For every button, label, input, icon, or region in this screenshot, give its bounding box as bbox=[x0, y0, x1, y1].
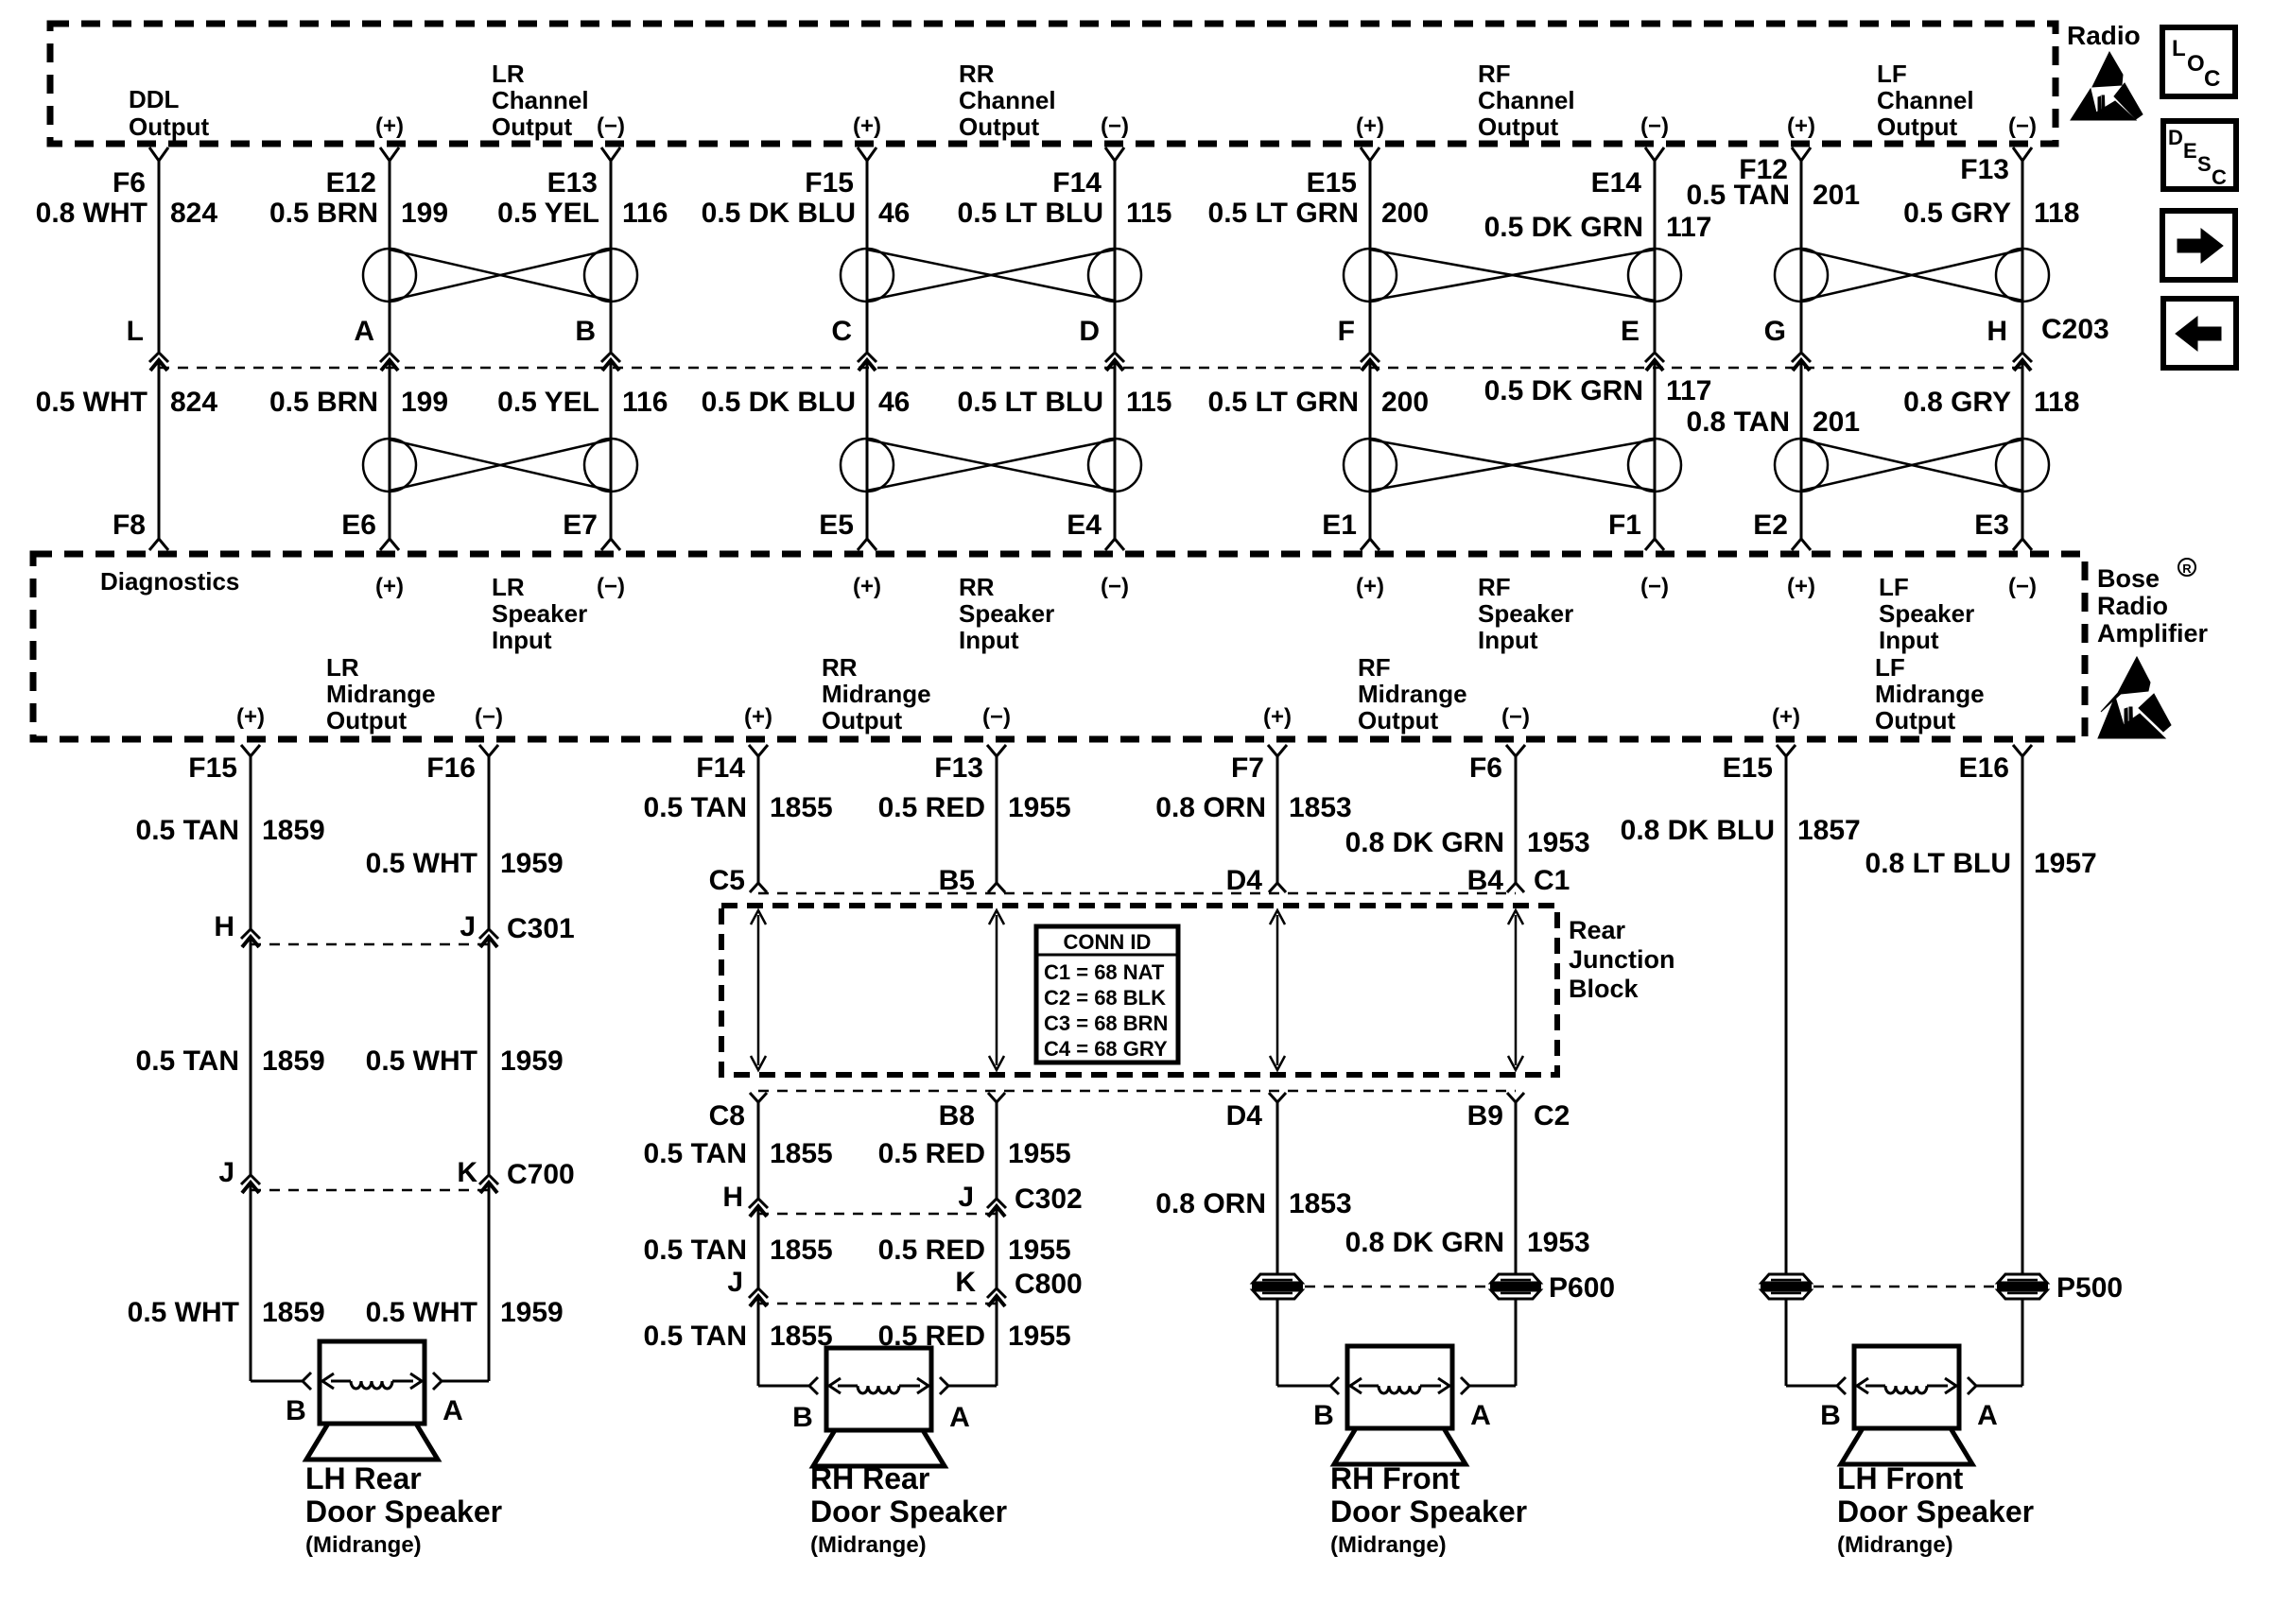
svg-text:Channel: Channel bbox=[959, 86, 1056, 114]
wire E14 to C203 (0.5 DK GRN 117) bbox=[1654, 161, 1657, 352]
svg-text:0.8 DK GRN: 0.8 DK GRN bbox=[1345, 1227, 1504, 1258]
svg-text:0.8 GRY: 0.8 GRY bbox=[1903, 387, 2011, 418]
svg-text:0.8 DK BLU: 0.8 DK BLU bbox=[1621, 815, 1775, 846]
svg-text:E15: E15 bbox=[1723, 752, 1773, 784]
svg-text:201: 201 bbox=[1813, 180, 1860, 211]
svg-text:(+): (+) bbox=[744, 704, 772, 730]
svg-text:A: A bbox=[949, 1402, 970, 1433]
svg-text:Speaker: Speaker bbox=[959, 599, 1054, 628]
svg-text:Input: Input bbox=[1478, 626, 1538, 654]
radio pin fork F12 bbox=[1792, 147, 1811, 161]
amp output pin fork F16 bbox=[479, 745, 498, 756]
svg-text:115: 115 bbox=[1126, 387, 1171, 418]
svg-text:F1: F1 bbox=[1608, 510, 1641, 541]
svg-text:C1 = 68 NAT: C1 = 68 NAT bbox=[1044, 960, 1165, 984]
in-line connector symbol C203 wire C bbox=[858, 353, 876, 362]
in-line connector symbol C203 wire D bbox=[1105, 353, 1124, 362]
svg-text:46: 46 bbox=[878, 387, 910, 418]
wire to speaker pin B bbox=[1277, 1385, 1330, 1388]
svg-text:Input: Input bbox=[1879, 626, 1939, 654]
svg-text:C8: C8 bbox=[709, 1100, 745, 1132]
speaker voice coil bbox=[331, 1380, 351, 1383]
svg-text:C: C bbox=[2212, 165, 2227, 189]
svg-text:Junction: Junction bbox=[1569, 945, 1675, 974]
svg-text:D: D bbox=[2168, 126, 2183, 149]
svg-text:(+): (+) bbox=[375, 574, 404, 599]
svg-text:Door Speaker: Door Speaker bbox=[810, 1494, 1007, 1529]
speaker body bbox=[320, 1341, 425, 1424]
svg-text:(−): (−) bbox=[2008, 574, 2037, 599]
svg-text:1855: 1855 bbox=[770, 1321, 833, 1352]
svg-text:J: J bbox=[218, 1157, 234, 1188]
svg-text:E7: E7 bbox=[563, 510, 598, 541]
amp output pin fork F13 bbox=[987, 745, 1006, 756]
svg-text:1859: 1859 bbox=[262, 1297, 325, 1328]
wire F13 to C203 (0.5 GRY 118) bbox=[2021, 161, 2024, 352]
svg-text:LR: LR bbox=[326, 653, 359, 682]
wire to speaker pin A bbox=[1469, 1385, 1516, 1388]
svg-text:L: L bbox=[127, 316, 144, 347]
svg-text:200: 200 bbox=[1381, 387, 1429, 418]
wire 0.8 DK GRN (P600 to speaker) bbox=[1515, 1298, 1518, 1386]
grommet P600 right bbox=[1491, 1274, 1540, 1283]
svg-text:Output: Output bbox=[1358, 706, 1439, 734]
svg-text:(−): (−) bbox=[1640, 113, 1669, 139]
radio pin fork E12 bbox=[380, 147, 399, 161]
junction top fork B5 bbox=[988, 883, 1005, 892]
in-line connector symbol C302 wire J bbox=[987, 1199, 1006, 1208]
svg-text:(Midrange): (Midrange) bbox=[810, 1532, 927, 1558]
svg-text:(−): (−) bbox=[1640, 574, 1669, 599]
amp pin fork E2 bbox=[1792, 539, 1811, 550]
svg-text:LF: LF bbox=[1877, 60, 1907, 88]
svg-text:0.8 LT BLU: 0.8 LT BLU bbox=[1865, 848, 2011, 879]
amp pin fork F8 bbox=[149, 539, 168, 550]
svg-text:Radio: Radio bbox=[2097, 592, 2168, 620]
C800 connector dashed line bbox=[758, 1303, 997, 1305]
svg-text:824: 824 bbox=[170, 198, 217, 229]
registered trademark symbol bbox=[2178, 559, 2195, 576]
svg-text:LF: LF bbox=[1875, 653, 1905, 682]
wire 0.5 TAN 1855 (C302 to C800) bbox=[757, 1206, 760, 1288]
speaker cone bbox=[1841, 1428, 1972, 1464]
twisted pair LR channel (lower) bbox=[363, 439, 416, 492]
svg-text:1959: 1959 bbox=[500, 848, 564, 879]
wire F12 to C203 (0.5 TAN 201) bbox=[1800, 161, 1803, 352]
svg-text:(−): (−) bbox=[1501, 704, 1530, 730]
grommet P600 left bbox=[1253, 1274, 1302, 1283]
svg-text:RF: RF bbox=[1478, 60, 1511, 88]
svg-text:115: 115 bbox=[1126, 198, 1171, 229]
wire G to amp (0.8 TAN 201) bbox=[1800, 360, 1803, 539]
svg-text:E16: E16 bbox=[1959, 752, 2009, 784]
svg-text:Speaker: Speaker bbox=[492, 599, 587, 628]
svg-text:200: 200 bbox=[1381, 198, 1429, 229]
svg-text:D4: D4 bbox=[1226, 1100, 1263, 1132]
svg-text:(−): (−) bbox=[1101, 113, 1129, 139]
radio pin fork E14 bbox=[1645, 147, 1664, 161]
svg-text:201: 201 bbox=[1813, 406, 1860, 438]
svg-text:Rear: Rear bbox=[1569, 916, 1626, 944]
svg-text:1953: 1953 bbox=[1527, 827, 1590, 858]
radio pin fork E13 bbox=[601, 147, 620, 161]
svg-text:(−): (−) bbox=[1101, 574, 1129, 599]
svg-text:F: F bbox=[1338, 316, 1355, 347]
svg-text:(+): (+) bbox=[1356, 574, 1384, 599]
svg-text:0.5 WHT: 0.5 WHT bbox=[366, 1045, 477, 1077]
wire E16 0.8 LT BLU 1957 bbox=[2021, 756, 2024, 1275]
wire 0.5 WHT 1959 (C301 to C700) bbox=[488, 937, 491, 1175]
svg-text:D4: D4 bbox=[1226, 865, 1263, 896]
svg-text:P600: P600 bbox=[1549, 1272, 1615, 1304]
svg-text:0.8 TAN: 0.8 TAN bbox=[1687, 406, 1790, 438]
svg-text:0.5 TAN: 0.5 TAN bbox=[644, 1138, 747, 1169]
svg-text:F16: F16 bbox=[426, 752, 476, 784]
svg-text:E15: E15 bbox=[1307, 167, 1357, 199]
speaker cone bbox=[306, 1424, 438, 1460]
junction bottom fork B8 bbox=[988, 1093, 1005, 1102]
svg-text:Output: Output bbox=[822, 706, 903, 734]
svg-text:0.5 RED: 0.5 RED bbox=[878, 1138, 985, 1169]
svg-text:C: C bbox=[2204, 66, 2220, 92]
svg-text:Amplifier: Amplifier bbox=[2097, 619, 2209, 648]
svg-text:0.8 ORN: 0.8 ORN bbox=[1155, 1188, 1266, 1219]
svg-text:H: H bbox=[214, 911, 234, 942]
svg-text:A: A bbox=[1977, 1400, 1998, 1431]
svg-text:Output: Output bbox=[129, 112, 210, 141]
radio pin fork F13 bbox=[2013, 147, 2032, 161]
amp output pin fork F14 bbox=[749, 745, 768, 756]
svg-text:1957: 1957 bbox=[2034, 848, 2097, 879]
svg-text:B9: B9 bbox=[1467, 1100, 1503, 1132]
svg-text:1959: 1959 bbox=[500, 1297, 564, 1328]
in-line connector symbol C800 wire K bbox=[987, 1288, 1006, 1298]
svg-text:0.5 WHT: 0.5 WHT bbox=[36, 387, 147, 418]
wire F14 to C203 (0.5 LT BLU 115) bbox=[1114, 161, 1117, 352]
in-line connector symbol C301 wire J bbox=[479, 929, 498, 939]
wire 0.5 TAN 1859 (C301 to C700) bbox=[250, 937, 252, 1175]
svg-text:B: B bbox=[1820, 1400, 1841, 1431]
svg-text:A: A bbox=[354, 316, 374, 347]
wire F14 0.5 TAN 1855 bbox=[757, 756, 760, 883]
svg-text:(+): (+) bbox=[1772, 704, 1800, 730]
amp output pin fork F7 bbox=[1268, 745, 1287, 756]
svg-text:LF: LF bbox=[1879, 573, 1909, 601]
svg-text:C2 = 68 BLK: C2 = 68 BLK bbox=[1044, 986, 1166, 1010]
svg-text:B: B bbox=[575, 316, 596, 347]
svg-text:Speaker: Speaker bbox=[1478, 599, 1573, 628]
svg-text:RH Rear: RH Rear bbox=[810, 1461, 929, 1495]
svg-text:0.5 TAN: 0.5 TAN bbox=[1687, 180, 1790, 211]
svg-text:Output: Output bbox=[492, 112, 573, 141]
amp output pin fork E16 bbox=[2013, 745, 2032, 756]
svg-text:Block: Block bbox=[1569, 975, 1640, 1003]
svg-text:1855: 1855 bbox=[770, 792, 833, 823]
svg-text:(+): (+) bbox=[853, 113, 881, 139]
svg-text:B8: B8 bbox=[939, 1100, 975, 1132]
svg-text:C5: C5 bbox=[709, 865, 745, 896]
svg-text:0.5 TAN: 0.5 TAN bbox=[644, 1235, 747, 1266]
svg-text:Output: Output bbox=[1877, 112, 1958, 141]
svg-text:E13: E13 bbox=[547, 167, 598, 199]
in-line connector symbol C700 wire J bbox=[241, 1175, 260, 1184]
amp pin fork E4 bbox=[1105, 539, 1124, 550]
wire C to amp (0.5 DK BLU 46) bbox=[866, 360, 869, 539]
svg-text:CONN ID: CONN ID bbox=[1064, 930, 1152, 954]
wire to speaker pin B bbox=[1786, 1385, 1837, 1388]
wire E15 to C203 (0.5 LT GRN 200) bbox=[1369, 161, 1372, 352]
svg-text:(+): (+) bbox=[375, 113, 404, 139]
grommet P500 left bbox=[1761, 1274, 1811, 1283]
wire F15 0.5 TAN 1859 bbox=[250, 756, 252, 929]
svg-text:1959: 1959 bbox=[500, 1045, 564, 1077]
speaker pin chevron B bbox=[1330, 1377, 1339, 1394]
svg-text:0.5 TAN: 0.5 TAN bbox=[136, 815, 239, 846]
svg-text:C1: C1 bbox=[1534, 865, 1570, 896]
wire A to amp (0.5 BRN 199) bbox=[389, 360, 391, 539]
svg-text:(Midrange): (Midrange) bbox=[1837, 1532, 1953, 1558]
ESD warning symbol (Radio) bbox=[2071, 52, 2143, 120]
C302 connector dashed line bbox=[758, 1213, 997, 1216]
svg-text:0.5 LT GRN: 0.5 LT GRN bbox=[1208, 387, 1359, 418]
in-line connector symbol C700 wire K bbox=[479, 1175, 498, 1184]
Bose Radio Amplifier (dashed box) bbox=[33, 554, 2085, 739]
P500 dashed line bbox=[1813, 1286, 1995, 1288]
svg-text:RR: RR bbox=[822, 653, 858, 682]
svg-text:F6: F6 bbox=[1469, 752, 1502, 784]
svg-text:C203: C203 bbox=[2041, 314, 2109, 345]
wire 0.8 ORN 1853 (junction to P600) bbox=[1276, 1102, 1279, 1275]
radio pin fork F6 bbox=[149, 147, 168, 161]
speaker voice coil bbox=[1865, 1385, 1885, 1388]
svg-text:F7: F7 bbox=[1231, 752, 1264, 784]
svg-text:1855: 1855 bbox=[770, 1138, 833, 1169]
P600 dashed line bbox=[1305, 1286, 1488, 1288]
in-line connector symbol C800 wire J bbox=[749, 1288, 768, 1298]
speaker cone bbox=[813, 1430, 945, 1466]
svg-text:A: A bbox=[1470, 1400, 1491, 1431]
svg-text:117: 117 bbox=[1666, 212, 1711, 243]
svg-text:P500: P500 bbox=[2056, 1272, 2123, 1304]
svg-text:D: D bbox=[1079, 316, 1100, 347]
wire to speaker pin B bbox=[251, 1380, 303, 1383]
speaker body bbox=[826, 1348, 931, 1430]
svg-text:E2: E2 bbox=[1753, 510, 1788, 541]
svg-text:(−): (−) bbox=[597, 113, 625, 139]
wire H to amp (0.8 GRY 118) bbox=[2021, 360, 2024, 539]
svg-text:R: R bbox=[2182, 561, 2192, 576]
svg-text:(+): (+) bbox=[853, 574, 881, 599]
in-line connector symbol C203 wire B bbox=[601, 353, 620, 362]
speaker pin chevron B bbox=[1837, 1377, 1846, 1394]
svg-text:RF: RF bbox=[1358, 653, 1391, 682]
wire 0.5 WHT 1859 (C700 to speaker) bbox=[250, 1183, 252, 1381]
speaker pin chevron A bbox=[940, 1377, 948, 1394]
svg-text:0.8 DK GRN: 0.8 DK GRN bbox=[1345, 827, 1504, 858]
svg-text:Channel: Channel bbox=[1478, 86, 1575, 114]
svg-text:(Midrange): (Midrange) bbox=[1330, 1532, 1447, 1558]
C301 connector dashed line bbox=[251, 943, 489, 946]
svg-text:116: 116 bbox=[622, 387, 668, 418]
svg-text:1855: 1855 bbox=[770, 1235, 833, 1266]
svg-text:G: G bbox=[1764, 316, 1786, 347]
junction top fork B4 bbox=[1507, 883, 1524, 892]
svg-text:0.5 BRN: 0.5 BRN bbox=[269, 198, 378, 229]
wire D to amp (0.5 LT BLU 115) bbox=[1114, 360, 1117, 539]
wire E15 0.8 DK BLU 1857 bbox=[1785, 756, 1788, 1275]
in-line connector symbol C203 wire E bbox=[1645, 353, 1664, 362]
svg-text:DDL: DDL bbox=[129, 85, 180, 113]
svg-text:F13: F13 bbox=[934, 752, 983, 784]
svg-text:B4: B4 bbox=[1467, 865, 1504, 896]
svg-text:Radio: Radio bbox=[2067, 21, 2141, 50]
speaker body bbox=[1854, 1346, 1959, 1428]
radio pin fork F15 bbox=[858, 147, 876, 161]
svg-text:118: 118 bbox=[2034, 198, 2079, 229]
svg-text:1955: 1955 bbox=[1008, 1138, 1071, 1169]
in-line connector symbol C203 wire H bbox=[2013, 353, 2032, 362]
svg-text:B5: B5 bbox=[939, 865, 975, 896]
grommet P500 right bbox=[1998, 1274, 2047, 1283]
svg-text:Door Speaker: Door Speaker bbox=[1330, 1494, 1527, 1529]
svg-text:(+): (+) bbox=[236, 704, 265, 730]
svg-text:RR: RR bbox=[959, 573, 995, 601]
speaker cone bbox=[1334, 1428, 1466, 1464]
wire 0.8 LT BLU (P500 to speaker) bbox=[2021, 1298, 2024, 1386]
svg-text:Output: Output bbox=[1875, 706, 1956, 734]
wire E13 to C203 (0.5 YEL 116) bbox=[610, 161, 613, 352]
speaker pin chevron B bbox=[303, 1373, 311, 1390]
wire F6 0.8 DK GRN 1953 bbox=[1515, 756, 1518, 883]
wire L to amp (0.5 WHT 824) bbox=[158, 360, 161, 539]
amp output pin fork F15 bbox=[241, 745, 260, 756]
speaker pin chevron A bbox=[1461, 1377, 1469, 1394]
svg-text:Output: Output bbox=[1478, 112, 1559, 141]
speaker pin chevron B bbox=[809, 1377, 818, 1394]
svg-text:0.5 WHT: 0.5 WHT bbox=[366, 848, 477, 879]
wire 0.5 WHT 1959 (C700 to speaker) bbox=[488, 1183, 491, 1381]
svg-text:0.5 DK GRN: 0.5 DK GRN bbox=[1484, 375, 1643, 406]
wire 0.5 TAN 1855 (C800 to speaker) bbox=[757, 1296, 760, 1386]
svg-text:F13: F13 bbox=[1960, 154, 2009, 185]
C203 in-line connector dashed line bbox=[159, 367, 2022, 370]
C1 connector dashed line bbox=[758, 892, 1516, 895]
svg-text:(−): (−) bbox=[597, 574, 625, 599]
svg-text:1853: 1853 bbox=[1289, 1188, 1352, 1219]
amp output pin fork F6 bbox=[1506, 745, 1525, 756]
svg-text:1859: 1859 bbox=[262, 1045, 325, 1077]
svg-text:199: 199 bbox=[401, 198, 448, 229]
svg-text:LH Rear: LH Rear bbox=[305, 1461, 422, 1495]
svg-text:Output: Output bbox=[326, 706, 408, 734]
in-line connector symbol C301 wire H bbox=[241, 929, 260, 939]
wire F6 to C203 (0.8 WHT 824) bbox=[158, 161, 161, 352]
svg-text:(−): (−) bbox=[475, 704, 503, 730]
junction top fork D4 bbox=[1269, 883, 1286, 892]
in-line connector symbol C203 wire L bbox=[149, 353, 168, 362]
in-line connector symbol C203 wire F bbox=[1361, 353, 1379, 362]
svg-text:0.5 GRY: 0.5 GRY bbox=[1903, 198, 2011, 229]
wire 0.5 RED 1955 (C800 to speaker) bbox=[996, 1296, 998, 1386]
in-line connector symbol C203 wire A bbox=[380, 353, 399, 362]
svg-text:Midrange: Midrange bbox=[1358, 680, 1467, 708]
svg-text:0.5 DK BLU: 0.5 DK BLU bbox=[702, 198, 856, 229]
svg-text:F15: F15 bbox=[188, 752, 237, 784]
right arrow legend box bbox=[2162, 211, 2235, 280]
twisted pair RR channel (lower) bbox=[841, 439, 894, 492]
svg-text:Bose: Bose bbox=[2097, 564, 2160, 593]
twisted pair LR channel (upper) bbox=[363, 249, 416, 302]
svg-text:0.5 LT BLU: 0.5 LT BLU bbox=[958, 387, 1103, 418]
wire F to amp (0.5 LT GRN 200) bbox=[1369, 360, 1372, 539]
radio pin fork E15 bbox=[1361, 147, 1379, 161]
svg-text:F14: F14 bbox=[1052, 167, 1102, 199]
svg-text:F6: F6 bbox=[113, 167, 146, 199]
svg-text:J: J bbox=[460, 911, 476, 942]
junction bottom fork D4 bbox=[1269, 1093, 1286, 1102]
Radio (dashed box) bbox=[50, 24, 2056, 144]
in-line connector symbol C302 wire H bbox=[749, 1199, 768, 1208]
svg-text:H: H bbox=[1987, 316, 2007, 347]
speaker pin chevron A bbox=[433, 1373, 442, 1390]
svg-text:1857: 1857 bbox=[1797, 815, 1861, 846]
wire 0.5 RED 1955 (junction to C302) bbox=[996, 1102, 998, 1199]
speaker voice coil bbox=[838, 1385, 858, 1388]
svg-text:Door Speaker: Door Speaker bbox=[1837, 1494, 2034, 1529]
svg-text:Input: Input bbox=[959, 626, 1019, 654]
svg-text:Midrange: Midrange bbox=[822, 680, 931, 708]
junction top fork C5 bbox=[750, 883, 767, 892]
svg-text:E: E bbox=[1621, 316, 1640, 347]
svg-text:B: B bbox=[792, 1402, 813, 1433]
svg-text:RR: RR bbox=[959, 60, 995, 88]
amp pin fork E5 bbox=[858, 539, 876, 550]
in-line connector symbol C203 wire G bbox=[1792, 353, 1811, 362]
svg-text:1953: 1953 bbox=[1527, 1227, 1590, 1258]
svg-text:1853: 1853 bbox=[1289, 792, 1352, 823]
wire to speaker pin B bbox=[758, 1385, 809, 1388]
wire E12 to C203 (0.5 BRN 199) bbox=[389, 161, 391, 352]
svg-text:C800: C800 bbox=[1015, 1269, 1083, 1300]
DESC legend box bbox=[2163, 121, 2236, 189]
svg-text:Diagnostics: Diagnostics bbox=[100, 567, 239, 596]
svg-text:199: 199 bbox=[401, 387, 448, 418]
wire 0.8 DK BLU (P500 to speaker) bbox=[1785, 1298, 1788, 1386]
svg-text:C700: C700 bbox=[507, 1159, 575, 1190]
svg-text:Output: Output bbox=[959, 112, 1040, 141]
twisted pair RF channel (lower) bbox=[1344, 439, 1397, 492]
svg-text:S: S bbox=[2197, 152, 2212, 176]
svg-text:RH Front: RH Front bbox=[1330, 1461, 1460, 1495]
svg-text:1955: 1955 bbox=[1008, 792, 1071, 823]
svg-text:(−): (−) bbox=[982, 704, 1011, 730]
twisted pair LF channel (upper) bbox=[1775, 249, 1828, 302]
left arrow legend box bbox=[2163, 299, 2236, 368]
svg-text:0.5 TAN: 0.5 TAN bbox=[644, 1321, 747, 1352]
svg-text:J: J bbox=[958, 1182, 974, 1213]
svg-text:C3 = 68 BRN: C3 = 68 BRN bbox=[1044, 1011, 1168, 1035]
wire 0.5 RED 1955 (C302 to C800) bbox=[996, 1206, 998, 1288]
wire 0.8 ORN (P600 to speaker) bbox=[1276, 1298, 1279, 1386]
wire E to amp (0.5 DK GRN 117) bbox=[1654, 360, 1657, 539]
svg-text:0.5 DK BLU: 0.5 DK BLU bbox=[702, 387, 856, 418]
svg-text:0.5 RED: 0.5 RED bbox=[878, 1235, 985, 1266]
speaker pin chevron A bbox=[1968, 1377, 1976, 1394]
svg-text:E4: E4 bbox=[1067, 510, 1102, 541]
svg-text:0.5 BRN: 0.5 BRN bbox=[269, 387, 378, 418]
svg-text:0.5 WHT: 0.5 WHT bbox=[366, 1297, 477, 1328]
svg-text:46: 46 bbox=[878, 198, 910, 229]
